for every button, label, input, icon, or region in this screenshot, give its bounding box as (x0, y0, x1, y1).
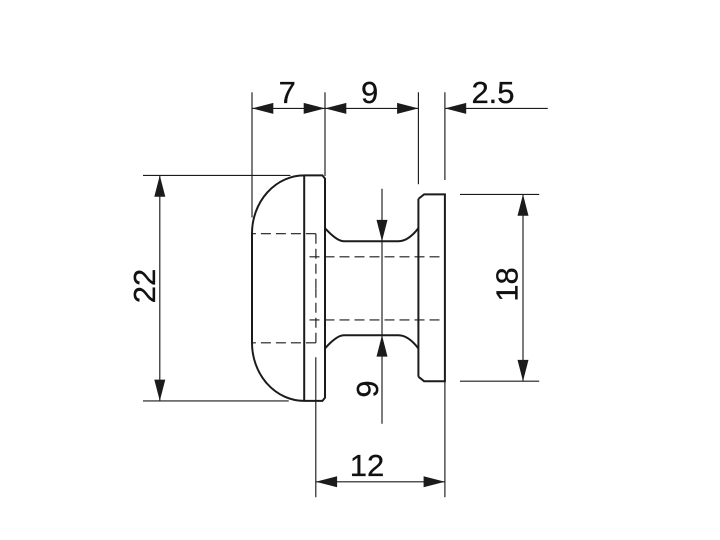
hidden line: dome flat lower tangent (253, 342, 316, 344)
extension line 18 top (460, 193, 539, 195)
hidden line: dome flat upper tangent (253, 233, 316, 235)
hidden line: hole top (d6) (310, 256, 445, 258)
arrowhead dim22 bottom (154, 380, 165, 401)
dimension line 9 (middle vertical) (381, 189, 383, 424)
flange outline (d18 x 2.5) with chamfered front corners (418, 194, 445, 381)
extension line 12 left (315, 357, 317, 497)
head dome tangent edge line (303, 175, 305, 401)
extension line for dims 9/2.5 (flange front) (417, 92, 419, 184)
arrowhead dim12 left (316, 476, 337, 487)
extension line 18 bottom (460, 380, 539, 382)
hidden line: vertical at hole bottom (upper half) (315, 234, 317, 289)
arrowhead dim9 right (397, 103, 418, 114)
arrowhead dim12 right (424, 476, 445, 487)
arrowhead dim9 left (325, 103, 346, 114)
dimension line 2.5 tail (445, 107, 548, 109)
svg-text:9: 9 (350, 380, 385, 397)
extension line 12 right (444, 381, 446, 497)
svg-text:22: 22 (127, 269, 162, 303)
neck lower profile with fillets (325, 335, 418, 348)
dimension line 12 (316, 481, 445, 483)
extension line 22 bottom (143, 400, 289, 402)
arrowhead dim18 top (518, 194, 529, 215)
hidden line: vertical at hole bottom (lower half) (315, 288, 317, 343)
svg-text:2.5: 2.5 (471, 75, 514, 110)
arrowhead dim22 top (154, 175, 165, 196)
dimension line 22 (159, 175, 161, 401)
svg-text:18: 18 (490, 267, 525, 301)
svg-text:7: 7 (279, 75, 296, 110)
dimension line 7 (252, 107, 325, 109)
knob head outline (dome front, d22) (252, 175, 325, 401)
neck upper profile with fillets (d9) (325, 228, 418, 241)
arrowhead dim18 bottom (518, 360, 529, 381)
svg-text:9: 9 (361, 75, 378, 110)
dimension line 9 (top) (325, 107, 418, 109)
hidden line: hole bottom (d6) (310, 319, 445, 321)
extension line for dim 7 (left, head front) (251, 92, 253, 217)
dimension line 18 (522, 194, 524, 381)
flange front face line (417, 199, 419, 377)
arrowhead dim9mid up (to neck bottom) (377, 335, 388, 356)
extension line for dim 2.5 (flange back) (444, 92, 446, 180)
arrowhead dim7 right (304, 103, 325, 114)
svg-text:12: 12 (350, 448, 384, 483)
extension line 22 top (143, 174, 290, 176)
arrowhead dim9mid down (to neck top) (377, 220, 388, 241)
extension line for dims 7/9 (head back face) (324, 92, 326, 176)
arrowhead dim7 left (252, 103, 273, 114)
arrowhead dim2.5 (445, 103, 466, 114)
